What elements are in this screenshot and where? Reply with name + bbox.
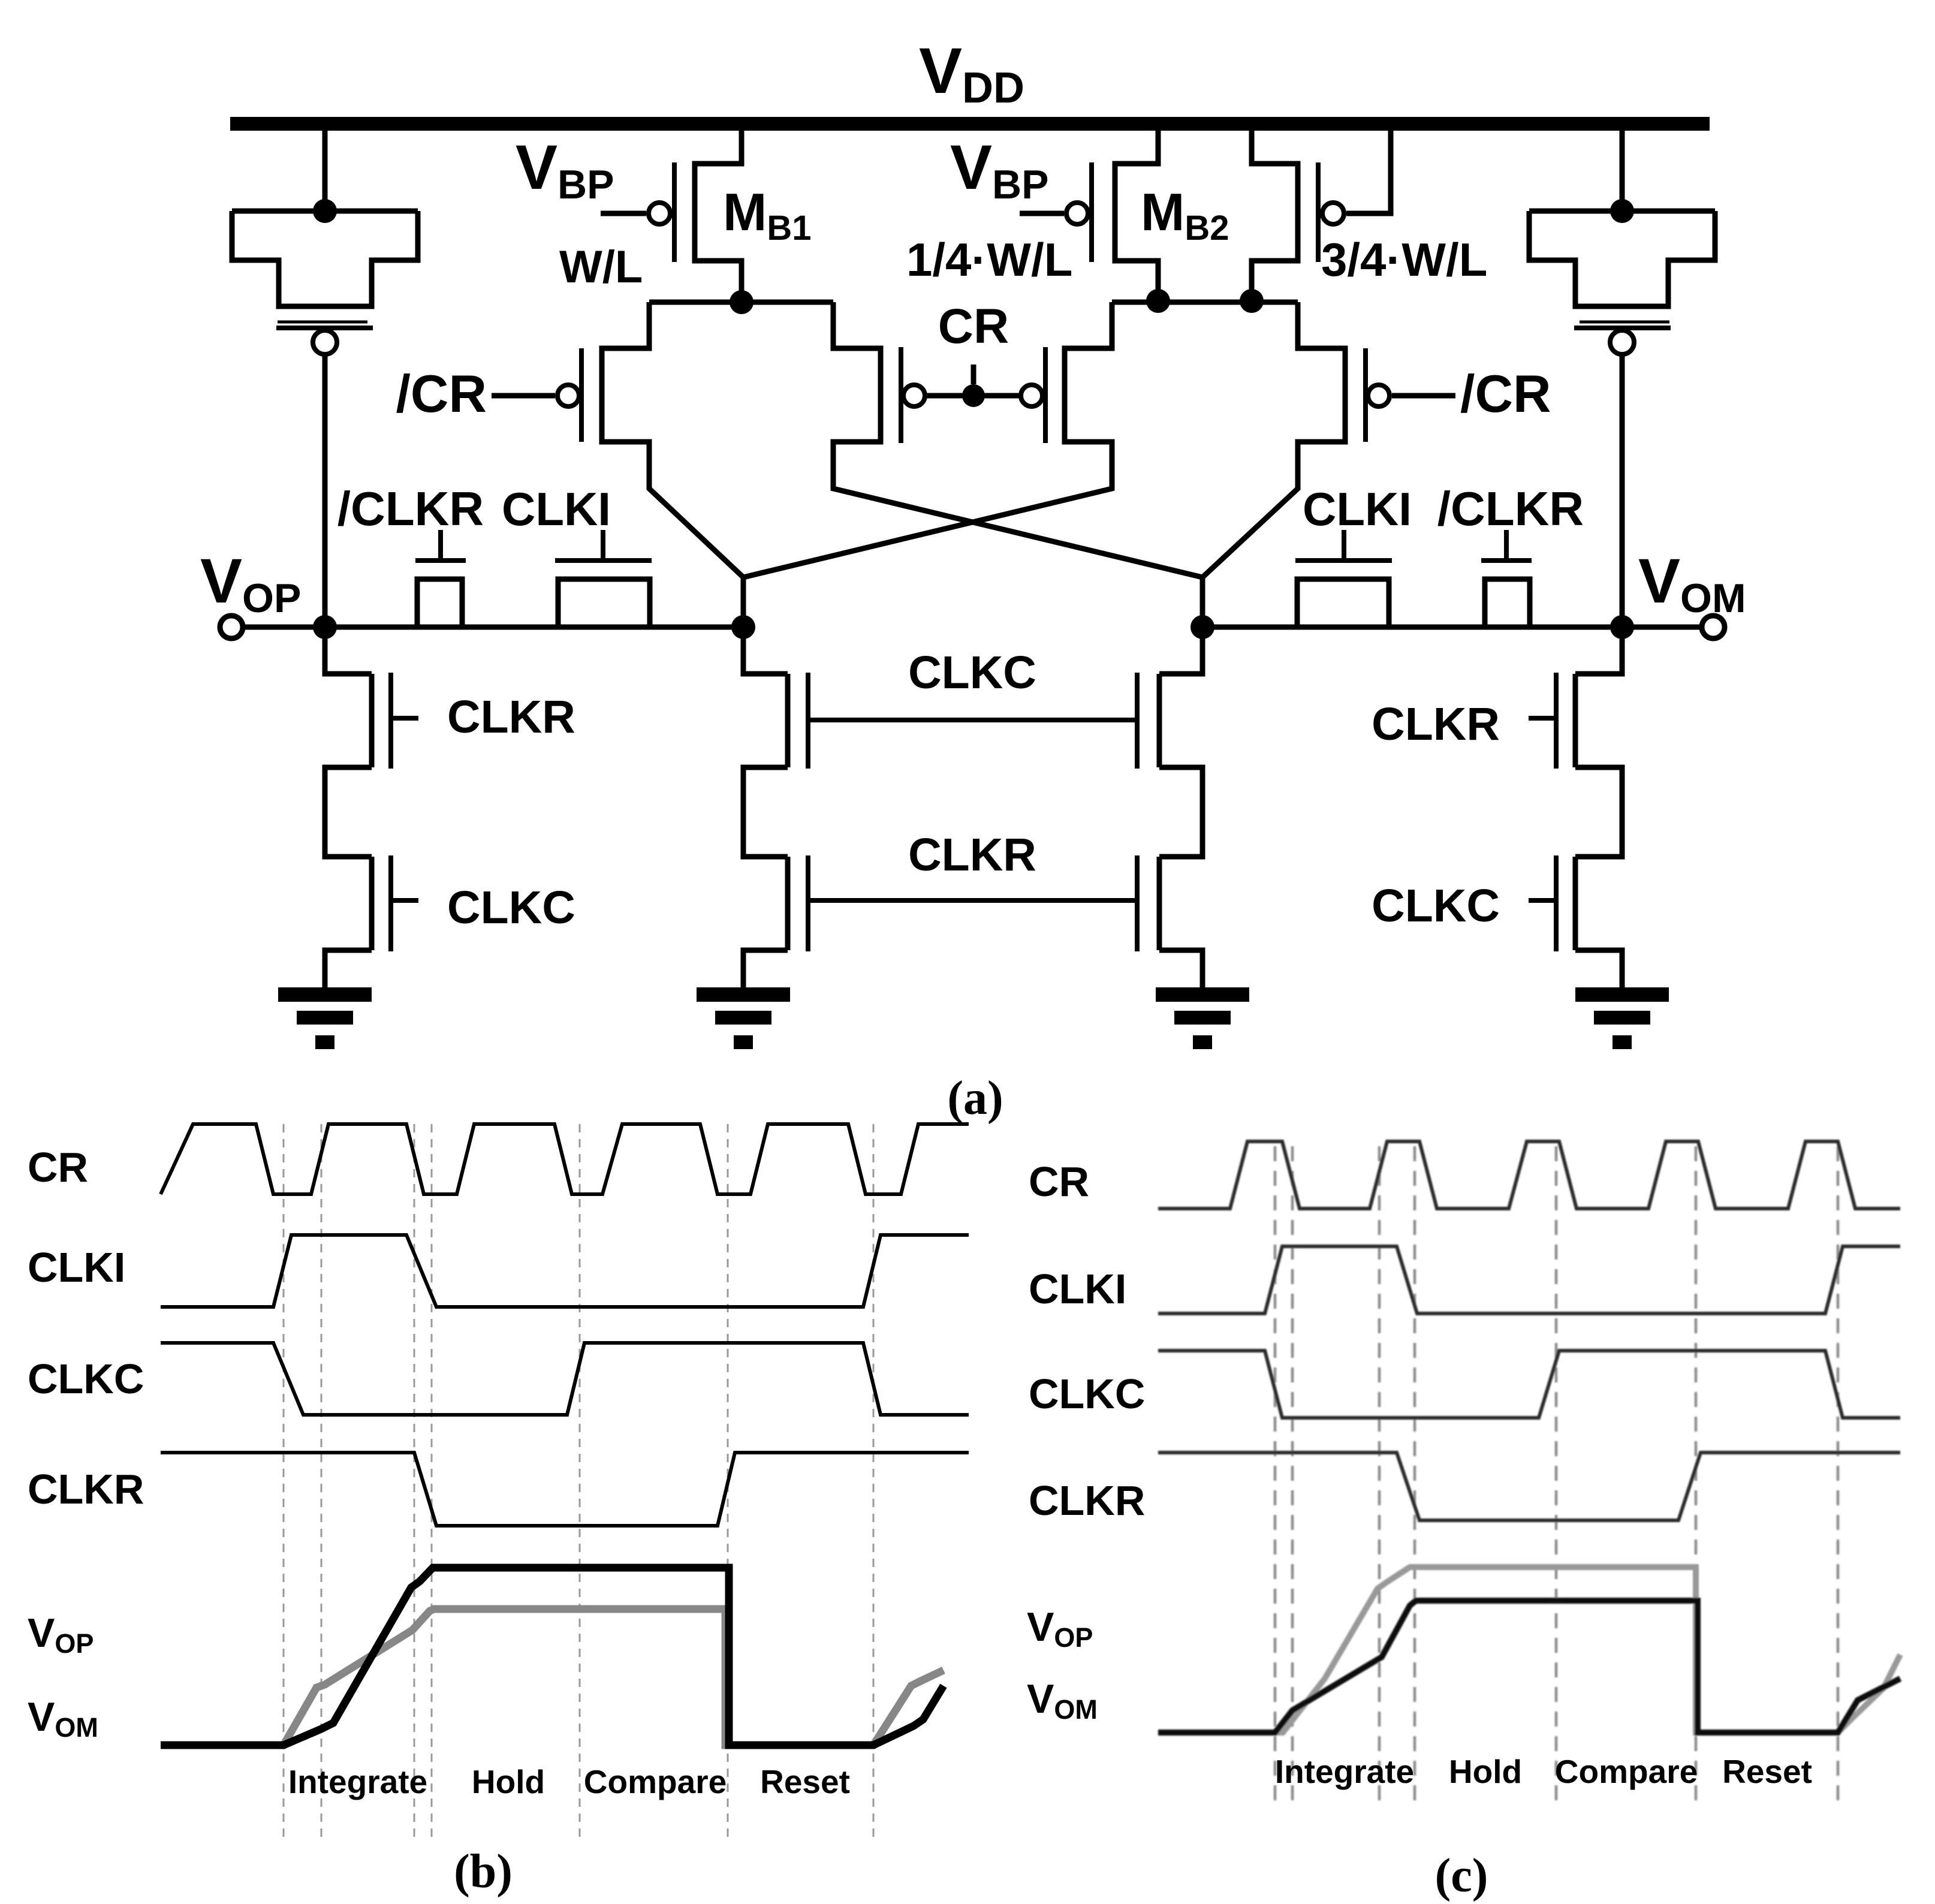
svg-text:CR: CR [938, 299, 1009, 354]
svg-text:/CR: /CR [1460, 364, 1551, 423]
svg-text:W/L: W/L [559, 242, 643, 293]
svg-text:CLKR: CLKR [28, 1466, 144, 1513]
svg-text:Integrate: Integrate [288, 1763, 427, 1800]
svg-text:CLKC: CLKC [1029, 1370, 1145, 1417]
svg-text:CLKR: CLKR [908, 829, 1036, 881]
svg-text:CLKI: CLKI [1029, 1266, 1126, 1312]
svg-text:CLKC: CLKC [28, 1355, 144, 1402]
svg-text:CLKC: CLKC [447, 882, 575, 933]
svg-text:Compare: Compare [1555, 1753, 1698, 1790]
svg-text:(b): (b) [454, 1845, 513, 1898]
svg-text:CLKR: CLKR [1372, 698, 1500, 750]
svg-text:Hold: Hold [1449, 1753, 1522, 1790]
svg-text:3/4·W/L: 3/4·W/L [1321, 233, 1487, 286]
svg-text:CR: CR [28, 1144, 88, 1191]
svg-text:CLKC: CLKC [1372, 880, 1500, 932]
svg-text:Reset: Reset [1722, 1753, 1812, 1790]
svg-text:(a): (a) [947, 1072, 1003, 1125]
svg-text:CLKR: CLKR [1029, 1477, 1145, 1524]
svg-text:/CLKR: /CLKR [337, 482, 484, 535]
svg-text:Compare: Compare [584, 1763, 727, 1800]
svg-text:CLKR: CLKR [447, 691, 575, 743]
svg-text:CLKI: CLKI [1303, 483, 1412, 535]
svg-text:Integrate: Integrate [1275, 1753, 1414, 1790]
svg-text:/CR: /CR [396, 364, 487, 423]
svg-text:CR: CR [1029, 1158, 1089, 1205]
svg-text:(c): (c) [1435, 1849, 1488, 1902]
svg-text:CLKI: CLKI [502, 483, 611, 535]
svg-text:1/4·W/L: 1/4·W/L [906, 233, 1072, 286]
svg-text:/CLKR: /CLKR [1437, 482, 1584, 535]
svg-text:CLKI: CLKI [28, 1244, 125, 1291]
svg-text:Reset: Reset [760, 1763, 850, 1800]
svg-text:Hold: Hold [472, 1763, 545, 1800]
svg-text:CLKC: CLKC [908, 647, 1036, 698]
